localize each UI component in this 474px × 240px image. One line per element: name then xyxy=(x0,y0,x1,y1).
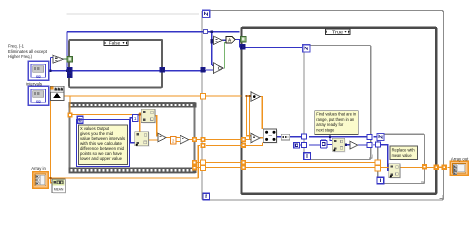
svg-text:Higher Freq.): Higher Freq.) xyxy=(8,54,32,59)
svg-text:Array out: Array out xyxy=(451,157,469,163)
svg-text:True: True xyxy=(332,29,344,34)
svg-text:False: False xyxy=(109,40,121,45)
svg-text:a: a xyxy=(334,139,336,143)
svg-text:intervals: intervals xyxy=(26,82,43,88)
svg-text:Freq. (-1: Freq. (-1 xyxy=(8,44,24,49)
svg-text:Array in: Array in xyxy=(31,166,46,172)
svg-text:MEAN: MEAN xyxy=(54,187,64,191)
svg-text:I32: I32 xyxy=(36,75,41,79)
svg-text:I32: I32 xyxy=(36,100,41,104)
svg-text:lower and upper value: lower and upper value xyxy=(80,156,123,161)
svg-text:Eliminates all except: Eliminates all except xyxy=(8,49,48,54)
svg-text:mean value: mean value xyxy=(392,153,412,158)
svg-text:1: 1 xyxy=(134,116,137,121)
svg-text:Replace with: Replace with xyxy=(392,148,416,153)
svg-text:next stage: next stage xyxy=(316,127,334,132)
svg-text:2: 2 xyxy=(172,138,175,143)
